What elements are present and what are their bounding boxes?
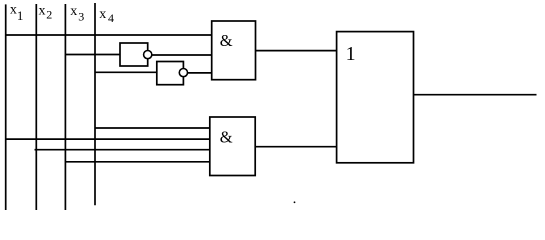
- svg-text:1: 1: [346, 43, 356, 65]
- wire x1 to U1 input 1: [6, 34, 212, 36]
- wire D1 output to U1 input 2: [152, 54, 212, 56]
- inverter D2 bubble: [179, 69, 187, 77]
- output wire: [414, 94, 537, 96]
- wire x3 to U2 input 4: [65, 161, 210, 163]
- OR gate U3: [337, 32, 414, 163]
- svg-text:x: x: [99, 7, 106, 22]
- svg-text:x: x: [70, 4, 77, 19]
- svg-text:1: 1: [17, 8, 24, 23]
- wire x2 to U2 input 3: [35, 149, 211, 151]
- input line x2: [35, 4, 37, 210]
- inverter D1 bubble: [144, 51, 152, 59]
- svg-text:4: 4: [108, 11, 114, 25]
- AND gate U1: [212, 21, 256, 80]
- wire x3 to inverter D1 input: [65, 54, 120, 56]
- wire U1 output to U3 input 1: [256, 50, 337, 52]
- stray dot: [294, 201, 296, 203]
- svg-text:&: &: [220, 31, 233, 50]
- label x4: [99, 7, 114, 25]
- input line x1: [5, 4, 7, 210]
- input line x3: [64, 4, 66, 210]
- svg-text:x: x: [10, 3, 17, 18]
- wire x4 to inverter D2 input: [95, 71, 157, 73]
- svg-text:x: x: [39, 4, 46, 19]
- AND gate U2: [210, 117, 255, 176]
- inverter D2: [157, 62, 184, 85]
- label x2: [39, 4, 53, 22]
- wire U2 output to U3 input 2: [255, 146, 336, 148]
- svg-text:3: 3: [78, 10, 84, 24]
- wire x1 to U2 input 2: [6, 138, 210, 140]
- wire x4 to U2 input 1: [95, 127, 210, 129]
- svg-text:&: &: [220, 128, 233, 147]
- label x1: [10, 3, 24, 24]
- label x3: [70, 4, 84, 24]
- svg-text:2: 2: [46, 8, 52, 22]
- input line x4: [94, 3, 96, 205]
- wire D2 output to U1 input 3: [188, 72, 213, 74]
- inverter D1: [120, 43, 148, 66]
